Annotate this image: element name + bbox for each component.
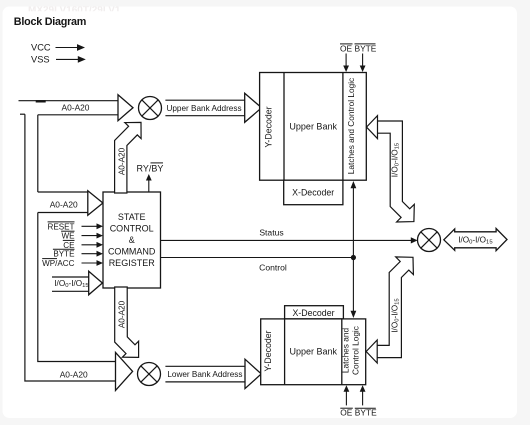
label Latches and Control Logic (lower)	[340, 326, 360, 375]
label A0-A20 (rotated, lower)	[118, 300, 127, 328]
svg-text:A0-A20: A0-A20	[117, 147, 126, 175]
label A0-A20 (middle)	[50, 200, 78, 210]
svg-text:Latches and Control Logic: Latches and Control Logic	[346, 78, 356, 174]
inputs OE BYTE (top)	[340, 43, 377, 72]
svg-text:VCC: VCC	[31, 43, 51, 53]
svg-text:X-Decoder: X-Decoder	[292, 308, 334, 318]
faint cropped header remnant	[28, 5, 139, 16]
inputs OE BYTE (bottom)	[340, 385, 377, 417]
title: Block Diagram	[14, 16, 86, 28]
label A0-A20 (top)	[62, 103, 90, 113]
svg-text:BYTE: BYTE	[355, 408, 377, 418]
svg-text:&: &	[129, 235, 135, 245]
svg-text:Control: Control	[259, 262, 287, 272]
svg-text:CE: CE	[63, 241, 75, 250]
arrowhead into state control register	[88, 191, 103, 216]
block: upper X-decoder	[284, 180, 343, 205]
block: lower bank composite	[261, 319, 366, 385]
input signal WP/ACC	[42, 259, 103, 268]
input signal RESET	[48, 222, 104, 231]
input signal BYTE	[53, 249, 103, 258]
svg-text:REGISTER: REGISTER	[109, 258, 156, 268]
arrowhead into upper bank mux	[118, 95, 133, 121]
input signal CE	[63, 240, 103, 249]
svg-text:A0-A20: A0-A20	[60, 369, 88, 379]
label Y-Decoder (lower)	[263, 330, 273, 371]
svg-text:Upper Bank Address: Upper Bank Address	[166, 104, 241, 113]
label I/O0-I/O15 (rotated, lower)	[390, 298, 400, 333]
label Lower Bank Address	[167, 370, 242, 379]
svg-text:WE: WE	[61, 232, 75, 241]
svg-text:OE: OE	[340, 408, 353, 418]
svg-text:OE: OE	[340, 43, 353, 53]
label A0-A20 (rotated, upper)	[117, 147, 126, 175]
wire: upper bank address channel	[165, 100, 244, 116]
wire: A0-A20 bus state box to lower mux	[115, 287, 139, 357]
wire: bottom A0-A20 channel label	[60, 369, 88, 379]
svg-text:WP/ACC: WP/ACC	[42, 259, 75, 268]
svg-text:Y-Decoder: Y-Decoder	[264, 106, 274, 147]
block U1: state control & command register	[103, 192, 161, 288]
wire: I/O0-I/O15 input channel	[52, 277, 89, 291]
svg-text:A0-A20: A0-A20	[62, 103, 90, 113]
label Y-Decoder (upper)	[264, 106, 274, 147]
svg-text:Control Logic: Control Logic	[351, 326, 361, 375]
mux lower bank (circle-X)	[138, 363, 161, 386]
input signal WE	[61, 231, 103, 240]
svg-text:Upper Bank: Upper Bank	[290, 347, 338, 357]
mux I/O (circle-X)	[418, 229, 441, 252]
svg-text:X-Decoder: X-Decoder	[292, 188, 334, 198]
wire: I/O bus lower latches to mux	[366, 257, 413, 363]
wire: top-left A0-A20 bus channel	[19, 100, 119, 115]
svg-text:Latches and: Latches and	[340, 328, 350, 374]
arrowhead I/O into state control	[89, 271, 103, 295]
block: upper bank composite	[260, 73, 367, 181]
svg-text:A0-A20: A0-A20	[50, 200, 78, 210]
svg-text:Lower Bank Address: Lower Bank Address	[167, 370, 242, 379]
svg-text:RESET: RESET	[48, 222, 75, 231]
svg-text:BYTE: BYTE	[53, 250, 75, 259]
output RY/BY	[137, 163, 164, 192]
svg-text:Block Diagram: Block Diagram	[14, 16, 86, 28]
svg-text:COMMAND: COMMAND	[108, 246, 156, 256]
wire: left vertical bus inner edge (lower)	[38, 213, 116, 362]
svg-text:BYTE: BYTE	[355, 43, 377, 53]
wire: left vertical bus outer edge	[25, 114, 116, 381]
block: lower X-decoder	[285, 306, 344, 319]
arrowhead into lower Y-decoder	[245, 359, 261, 388]
label Upper Bank Address	[166, 104, 241, 113]
wire: I/O bus upper latches to mux	[367, 116, 415, 222]
power VSS label and arrow	[31, 55, 86, 65]
arrowhead into lower bank mux	[116, 352, 133, 390]
mux upper bank (circle-X)	[139, 97, 162, 120]
svg-text:Status: Status	[259, 227, 283, 237]
svg-text:CONTROL: CONTROL	[110, 224, 154, 234]
power VCC label and arrow	[31, 43, 85, 53]
svg-text:STATE: STATE	[118, 212, 146, 222]
wire: A0-A20 bus state box to upper mux	[115, 122, 142, 193]
label Upper Bank (lower block)	[290, 347, 338, 357]
svg-text:A0-A20: A0-A20	[118, 300, 127, 328]
label Upper Bank (upper block)	[289, 122, 337, 132]
label I/O0-I/O15 (rotated, upper)	[390, 142, 400, 177]
wire: left vertical bus inner edge (upper)	[37, 115, 39, 192]
wire: lower bank address channel	[165, 366, 245, 382]
label I/O0-I/O15 (left)	[54, 279, 89, 289]
bidirectional I/O0-I/O15 arrow	[444, 229, 507, 251]
wire: Control line with junction dot	[161, 255, 357, 272]
wire: Status line	[161, 227, 418, 243]
label Latches and Control Logic (upper)	[346, 78, 356, 174]
wire: A0-A20 tap into state control	[38, 192, 88, 213]
arrowhead into upper Y-decoder	[245, 93, 262, 122]
wire: vertical link between upper and lower latches	[351, 181, 357, 318]
svg-text:Upper Bank: Upper Bank	[289, 122, 337, 132]
svg-text:Y-Decoder: Y-Decoder	[263, 330, 273, 371]
svg-text:VSS: VSS	[31, 55, 50, 65]
svg-text:RY/BY: RY/BY	[137, 163, 164, 173]
